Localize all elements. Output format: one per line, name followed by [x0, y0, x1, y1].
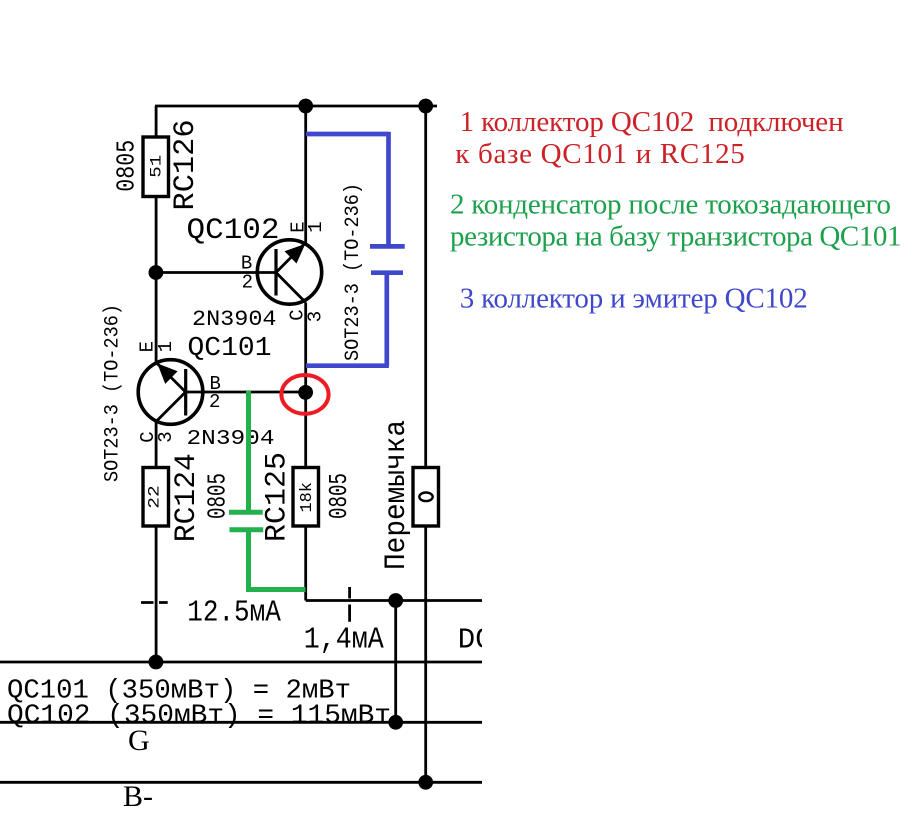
- svg-text:QC102 (350мВт) = 115мВт: QC102 (350мВт) = 115мВт: [7, 702, 391, 732]
- svg-text:Перемычка: Перемычка: [379, 420, 413, 570]
- svg-text:2N3904: 2N3904: [187, 428, 275, 451]
- svg-text:G: G: [128, 724, 150, 757]
- svg-text:RC125: RC125: [261, 452, 295, 542]
- svg-text:B-: B-: [123, 780, 153, 813]
- svg-text:1 коллектор QC102 подключен: 1 коллектор QC102 подключен: [460, 106, 844, 138]
- svg-text:51: 51: [147, 155, 165, 178]
- svg-text:0805: 0805: [203, 473, 233, 519]
- svg-text:1: 1: [155, 341, 177, 352]
- svg-text:резистора на базу транзистора: резистора на базу транзистора QC101: [450, 221, 902, 253]
- svg-text:22: 22: [146, 485, 164, 509]
- svg-text:3 коллектор и эмитер QC102: 3 коллектор и эмитер QC102: [460, 283, 808, 315]
- svg-text:RC124: RC124: [170, 453, 204, 542]
- svg-text:к базе QC101 и RC125: к базе QC101 и RC125: [455, 138, 745, 170]
- svg-text:2N3904: 2N3904: [192, 307, 277, 332]
- svg-text:3: 3: [155, 431, 177, 442]
- svg-text:RC126: RC126: [169, 120, 203, 211]
- svg-text:18k: 18k: [298, 482, 317, 513]
- svg-text:DC: DC: [458, 624, 493, 657]
- svg-text:3: 3: [305, 311, 327, 322]
- svg-text:2: 2: [209, 391, 220, 413]
- svg-text:2 конденсатор после токозадающ: 2 конденсатор после токозадающего: [450, 189, 891, 221]
- svg-text:SOT23-3 (TO-236): SOT23-3 (TO-236): [342, 183, 365, 361]
- svg-text:SOT23-3 (TO-236): SOT23-3 (TO-236): [102, 304, 125, 482]
- svg-text:0805: 0805: [111, 140, 141, 192]
- svg-text:1: 1: [305, 221, 327, 232]
- svg-text:12.5мА: 12.5мА: [187, 597, 281, 631]
- svg-text:2: 2: [242, 271, 253, 293]
- svg-text:QC102: QC102: [187, 214, 280, 248]
- svg-text:QC101: QC101: [188, 334, 272, 364]
- svg-text:0805: 0805: [324, 473, 354, 519]
- svg-text:1,4мА: 1,4мА: [304, 624, 385, 658]
